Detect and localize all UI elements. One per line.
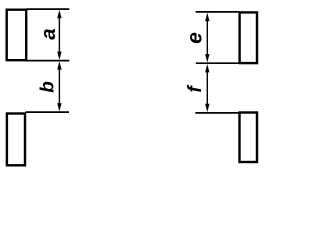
svg-text:e: e [183, 32, 206, 44]
wire: lower-left tape edge line [26, 111, 70, 113]
dimension f line [206, 68, 208, 108]
component body top-right [240, 12, 257, 63]
svg-text:b: b [38, 81, 59, 93]
component body top-left [7, 10, 27, 61]
wire: top-left tape edge line [27, 8, 70, 10]
wire: mid-left tape edge line [27, 60, 70, 62]
wire: top-right tape edge line [196, 11, 240, 13]
dimension b line [58, 66, 60, 106]
wire: lower-right tape edge line [195, 112, 239, 114]
component body bottom-left [7, 114, 25, 166]
wire: mid-right tape edge line [196, 62, 240, 64]
component body bottom-right [240, 113, 258, 163]
svg-text:a: a [37, 28, 60, 39]
dimension e line [206, 18, 208, 58]
dimension a line [58, 15, 60, 55]
